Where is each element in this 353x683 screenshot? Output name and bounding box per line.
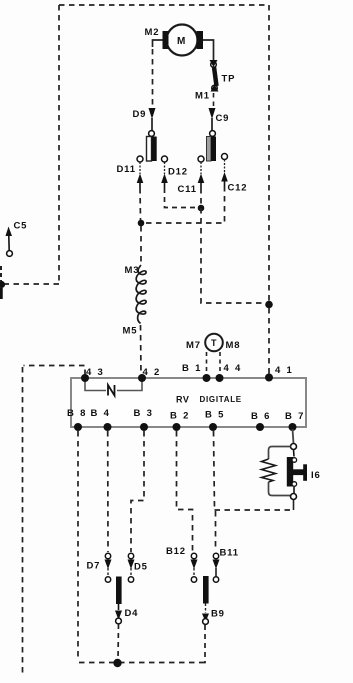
- connector D9: [133, 108, 156, 136]
- connector D5: [128, 553, 148, 582]
- wire B8 down: [77, 431, 79, 660]
- svg-text:4 3: 4 3: [86, 367, 105, 378]
- svg-text:B 7: B 7: [285, 411, 305, 422]
- wire B4 down to D7: [107, 431, 109, 552]
- svg-text:M5: M5: [123, 326, 138, 337]
- connector C11: [178, 156, 205, 195]
- node pin B4: [104, 423, 112, 431]
- svg-text:B9: B9: [211, 609, 225, 620]
- wire B2 down to B12 (with jog): [177, 431, 193, 551]
- svg-text:C12: C12: [228, 183, 248, 194]
- node pin 42: [138, 374, 146, 382]
- wire I6 bottom stub: [293, 500, 295, 510]
- svg-text:M: M: [177, 36, 185, 47]
- node pin 41: [265, 374, 273, 382]
- svg-text:4 1: 4 1: [275, 365, 294, 376]
- inductor coil M3/M5: [123, 265, 147, 337]
- svg-text:T: T: [211, 338, 217, 348]
- svg-text:C11: C11: [178, 184, 197, 195]
- node pin B6: [256, 423, 264, 431]
- wire dashed top border: [59, 4, 269, 6]
- connector B11: [213, 548, 239, 583]
- svg-text:C5: C5: [14, 221, 28, 232]
- node I6 bottom terminal: [291, 494, 297, 500]
- wire dashed right border lower (net 4 1): [268, 308, 270, 375]
- wire T left leg to pin B1: [206, 352, 208, 374]
- wire dashed bottom-left horizontal: [2, 283, 59, 285]
- switch I6: [287, 450, 321, 494]
- IC box RV DIGITALE: [71, 378, 306, 427]
- node pin B2: [173, 423, 181, 431]
- connector D12: [161, 156, 188, 188]
- svg-text:B 8: B 8: [67, 408, 87, 419]
- node pin B3: [140, 423, 148, 431]
- thermostat T (M7/M8): [186, 334, 240, 352]
- svg-text:B 3: B 3: [134, 408, 154, 419]
- node I6 top terminal: [291, 444, 297, 450]
- wire dashed right border upper: [268, 5, 270, 301]
- svg-text:I6: I6: [311, 470, 321, 481]
- node D11/C12 junction: [138, 220, 145, 227]
- svg-text:DIGITALE: DIGITALE: [200, 395, 242, 404]
- svg-text:D9: D9: [133, 109, 147, 120]
- wire motor left lead: [153, 40, 164, 106]
- svg-text:B12: B12: [166, 546, 186, 557]
- svg-text:M7: M7: [186, 340, 201, 351]
- node right border junction: [265, 301, 273, 309]
- wire dashed left border: [58, 5, 60, 284]
- node bottom bus junction: [113, 659, 121, 667]
- connector D7: [87, 553, 112, 582]
- svg-text:B 5: B 5: [205, 410, 225, 421]
- wire B5 down: [214, 431, 215, 510]
- svg-text:M8: M8: [226, 340, 241, 351]
- fuse element under D9: [147, 137, 157, 162]
- wire T right leg to pin 44: [219, 352, 221, 374]
- wire left-edge stub: [0, 266, 2, 299]
- connector C9: [209, 108, 230, 136]
- internal component between pins 43 and 42: [85, 378, 142, 396]
- wire C11 down to right border: [201, 188, 265, 303]
- wire D4 to bus: [117, 624, 120, 660]
- wire TP to C9: [213, 93, 215, 107]
- wire bottom bus: [79, 662, 204, 664]
- wire pin 43 to left rail: [24, 366, 86, 376]
- node pin B8: [74, 423, 82, 431]
- svg-text:B11: B11: [220, 548, 239, 559]
- wire I6 bottom branch: [269, 482, 291, 496]
- svg-text:C9: C9: [216, 113, 230, 124]
- svg-text:D7: D7: [87, 561, 101, 572]
- wire coil to pin 42: [140, 325, 143, 375]
- svg-text:M1: M1: [195, 91, 210, 102]
- wire B7 down to I6: [293, 429, 294, 444]
- fuse element under C9: [207, 137, 217, 162]
- node junction on left edge: [0, 281, 5, 288]
- wire C12 to D11 node: [144, 186, 225, 223]
- wire D12 to C11 node: [165, 188, 198, 208]
- wire B9 to bus corner: [204, 625, 205, 663]
- wire B5 junction down to B11: [215, 511, 217, 551]
- svg-text:RV: RV: [176, 395, 189, 405]
- svg-text:B 2: B 2: [170, 411, 190, 422]
- node C11/D12 junction: [198, 205, 205, 212]
- svg-text:D11: D11: [117, 164, 136, 175]
- svg-text:B 6: B 6: [251, 411, 271, 422]
- connector C5: [6, 221, 28, 257]
- node pin 44: [216, 374, 224, 382]
- element B9: [202, 576, 225, 624]
- svg-text:B 4: B 4: [91, 408, 111, 419]
- connector D11: [117, 156, 144, 188]
- node pin B7: [289, 423, 297, 431]
- node pin B1: [203, 374, 211, 382]
- svg-text:D4: D4: [125, 608, 139, 619]
- wire D11 to node: [139, 188, 142, 220]
- wire B5 junction to I6 bottom: [215, 509, 294, 511]
- thermal protector TP: [195, 60, 235, 102]
- svg-text:TP: TP: [222, 74, 236, 85]
- element D4: [115, 577, 138, 624]
- resistor in I6: [262, 459, 276, 482]
- svg-text:D12: D12: [168, 167, 188, 178]
- wire I6 top branch: [269, 447, 291, 460]
- connector B12: [166, 546, 198, 582]
- svg-text:M2: M2: [145, 27, 160, 38]
- svg-text:D5: D5: [134, 562, 148, 573]
- node pin 43: [81, 374, 89, 382]
- wire node to coil: [140, 226, 142, 263]
- motor M2: [145, 25, 204, 56]
- node pin B5: [209, 423, 217, 431]
- svg-text:M3: M3: [125, 265, 140, 276]
- svg-text:4 4: 4 4: [224, 363, 243, 374]
- svg-text:B 1: B 1: [182, 363, 202, 374]
- wire left rail down: [22, 367, 24, 677]
- wire B3 down to D5 (with jog): [131, 431, 144, 552]
- wire motor right lead: [203, 40, 214, 60]
- connector C12: [221, 154, 247, 194]
